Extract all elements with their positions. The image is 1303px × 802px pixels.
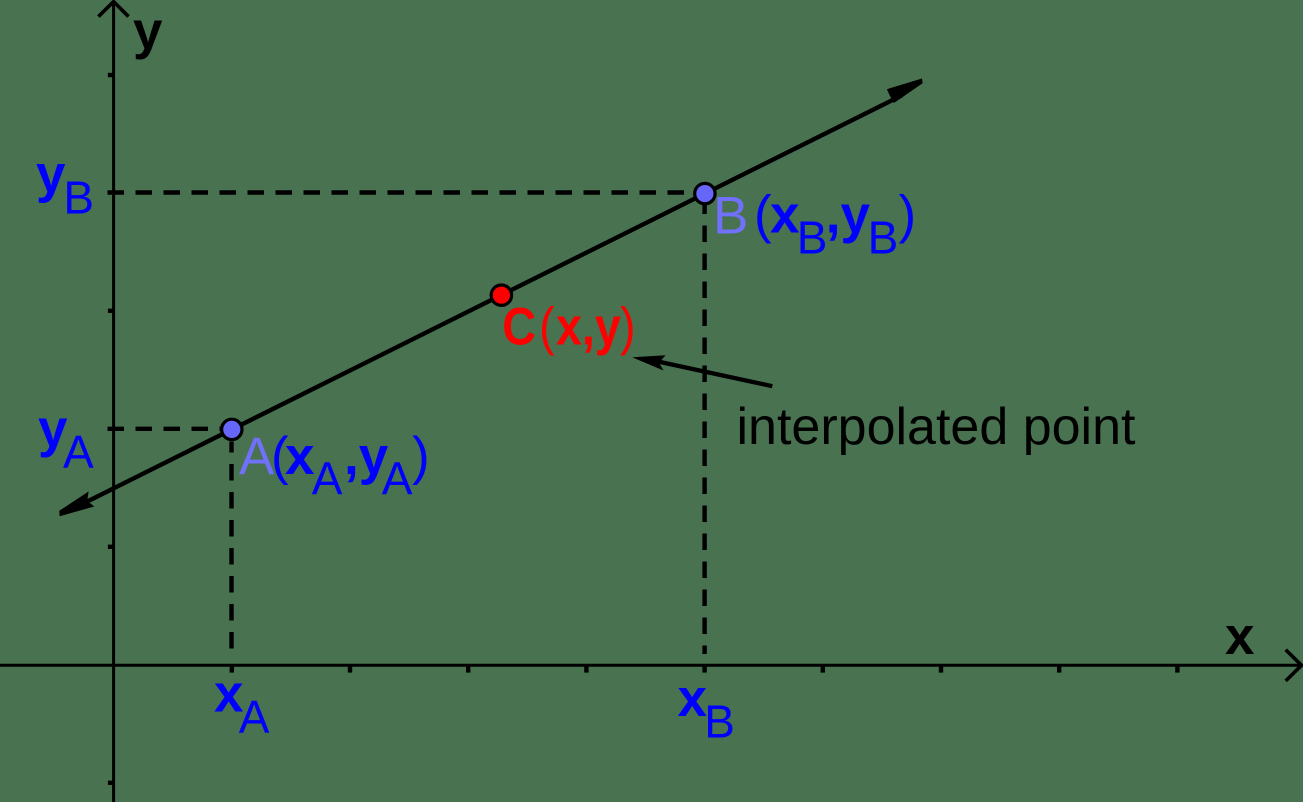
svg-text:A: A (63, 426, 94, 478)
svg-text:y: y (36, 145, 66, 204)
svg-text:interpolated point: interpolated point (737, 398, 1137, 456)
svg-text:A: A (239, 691, 270, 743)
svg-text:B: B (797, 212, 828, 264)
svg-text:x: x (770, 186, 800, 245)
svg-text:(: ( (539, 297, 555, 356)
svg-text:): ) (899, 186, 917, 245)
svg-text:x: x (678, 669, 708, 728)
svg-text:A: A (312, 452, 343, 504)
svg-text:C: C (502, 297, 536, 356)
svg-text:A: A (239, 427, 275, 486)
svg-text:x: x (285, 427, 315, 486)
svg-text:B: B (63, 172, 94, 224)
svg-text:B: B (868, 212, 899, 264)
svg-text:B: B (704, 696, 735, 748)
svg-text:B: B (713, 186, 748, 245)
svg-text:x: x (1225, 607, 1255, 666)
svg-text:): ) (412, 427, 430, 486)
svg-text:y: y (133, 2, 163, 61)
svg-text:A: A (382, 452, 413, 504)
svg-text:): ) (620, 297, 636, 356)
svg-text:,y: ,y (826, 186, 871, 245)
svg-text:x,y: x,y (556, 297, 621, 356)
